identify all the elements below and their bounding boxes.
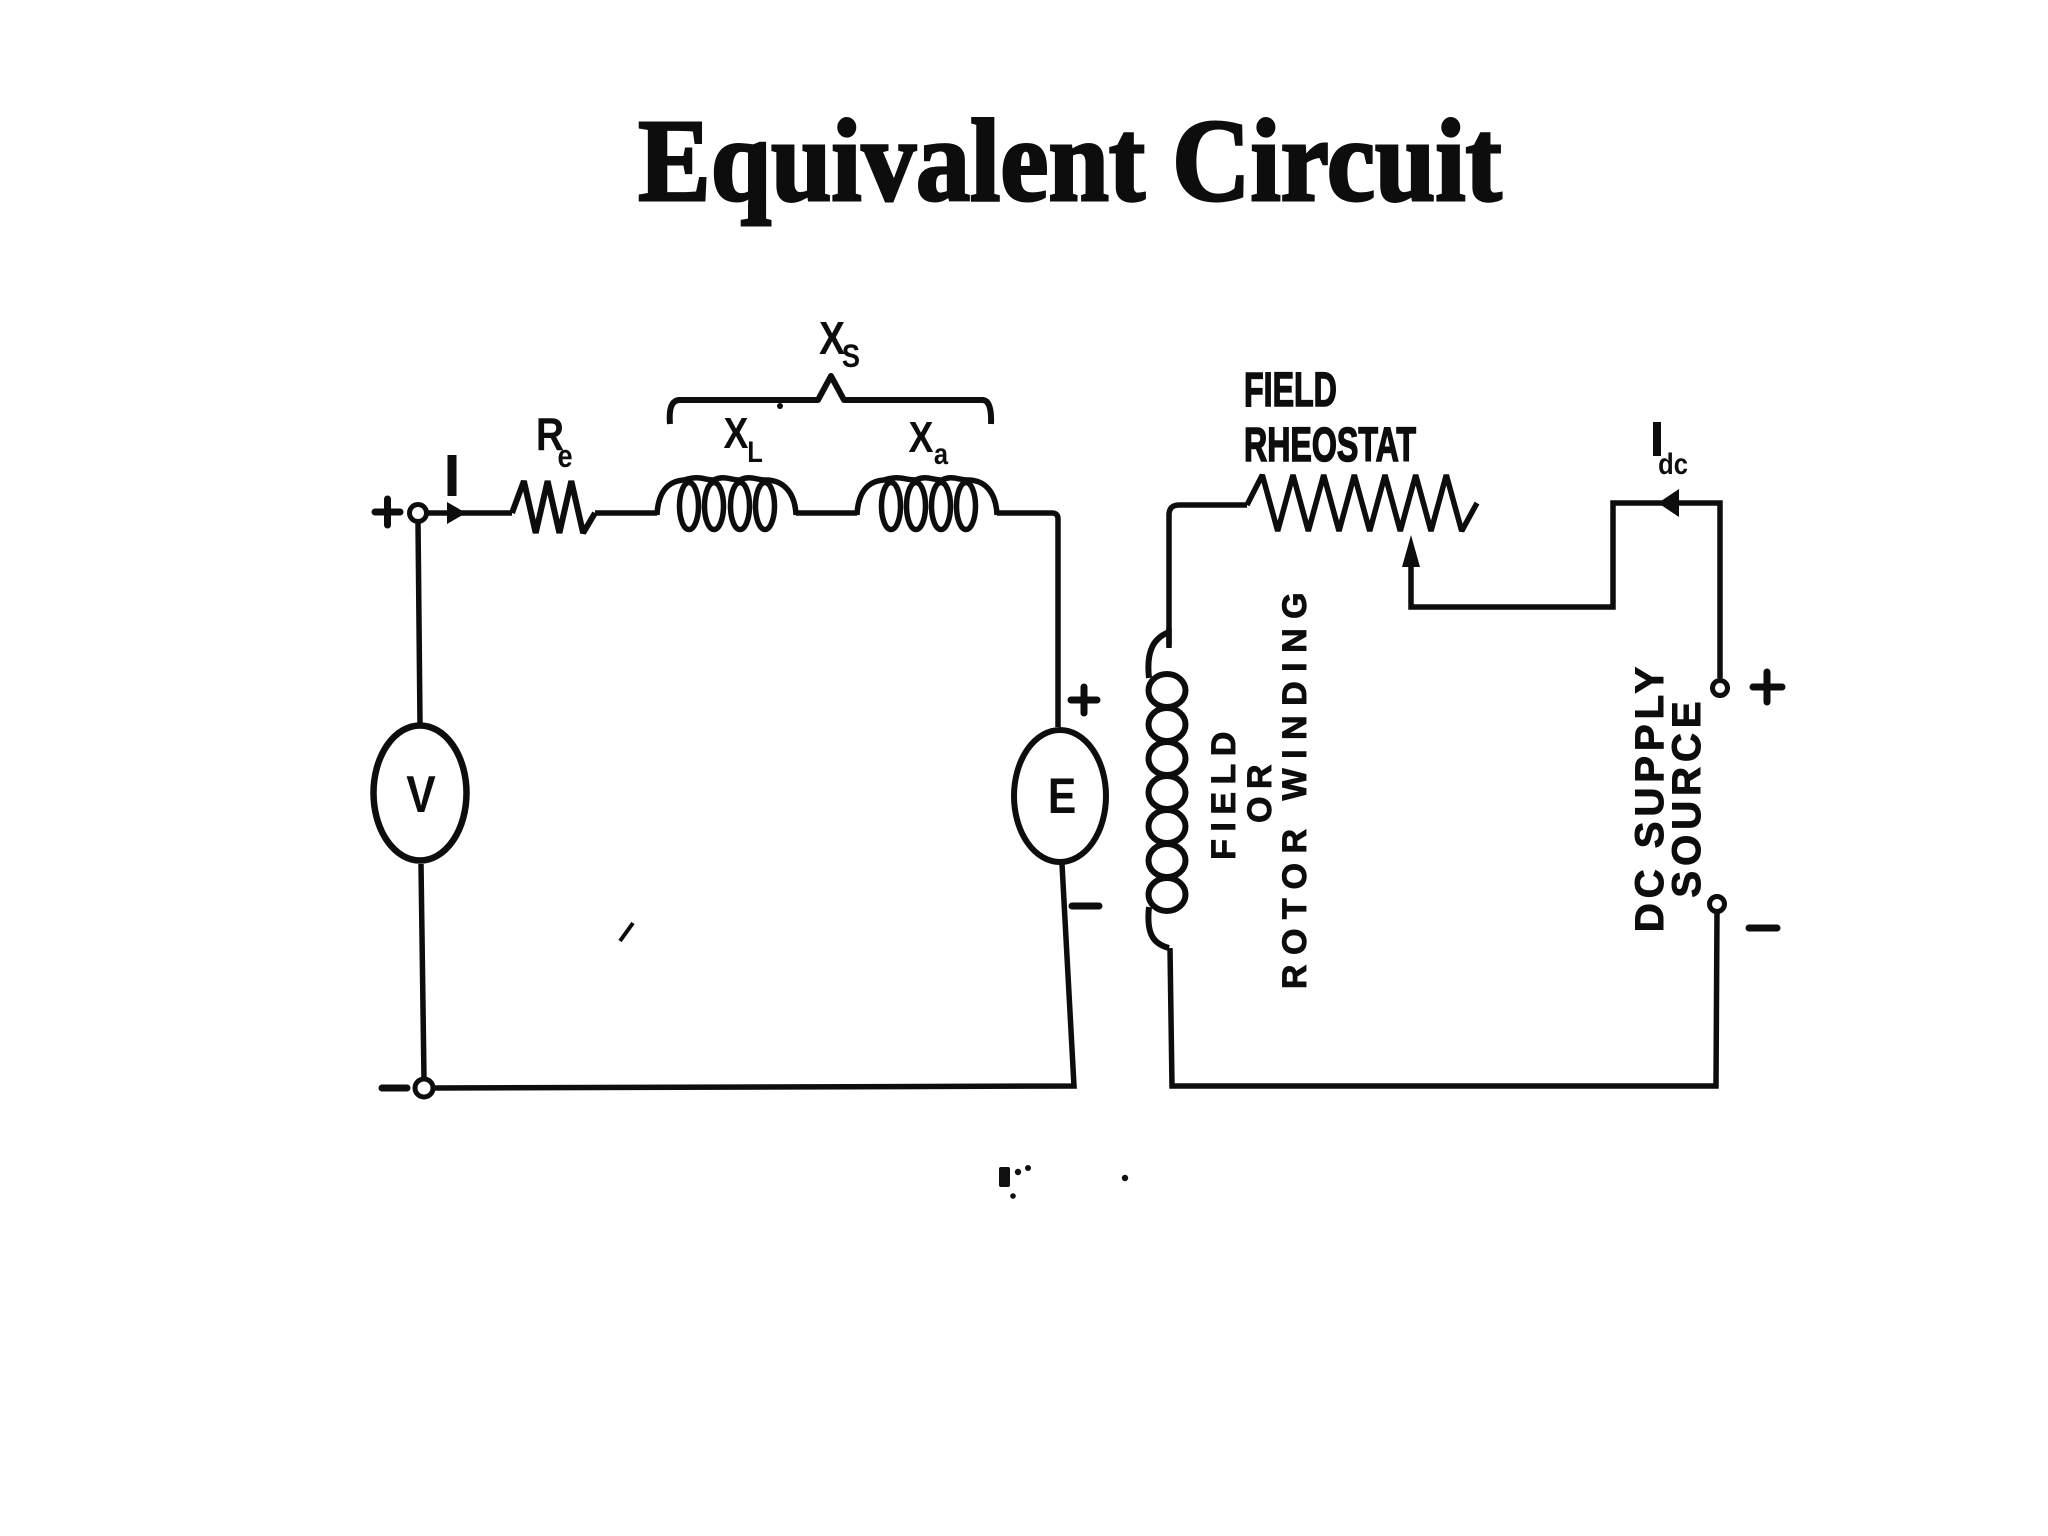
svg-text:SOURCE: SOURCE bbox=[1665, 696, 1709, 897]
wire Re to XL bbox=[595, 510, 657, 516]
svg-text:a: a bbox=[934, 437, 949, 470]
wire T1 down to V bbox=[418, 521, 420, 723]
node + (top-left polarity mark) bbox=[375, 499, 400, 525]
current arrow Idc (points left) bbox=[1658, 489, 1679, 517]
svg-text:OR: OR bbox=[1241, 757, 1279, 823]
node - (bottom-left polarity mark) bbox=[382, 1085, 407, 1092]
terminal T4 (DC supply -) bbox=[1710, 897, 1725, 912]
rheostat wiper arrow bbox=[1402, 535, 1420, 567]
source V (voltmeter) bbox=[374, 726, 467, 861]
wire Xa to right corner and down to E bbox=[997, 513, 1058, 727]
node + (E positive) bbox=[1071, 687, 1097, 713]
label Xs bbox=[819, 313, 846, 365]
svg-text:S: S bbox=[842, 339, 860, 375]
svg-text:X: X bbox=[724, 408, 749, 458]
label FIELD RHEOSTAT bbox=[1244, 363, 1337, 417]
svg-text:Equivalent Circuit: Equivalent Circuit bbox=[638, 95, 1502, 226]
label Xa bbox=[909, 412, 934, 462]
svg-text:RHEOSTAT: RHEOSTAT bbox=[1244, 418, 1416, 472]
speck (stray slash mark) bbox=[620, 923, 633, 941]
wire: right circuit top-left riser bbox=[1169, 505, 1247, 645]
speck under brace bbox=[777, 403, 783, 409]
wire XL to Xa bbox=[796, 510, 857, 516]
svg-text:ROTOR WINDING: ROTOR WINDING bbox=[1276, 583, 1314, 989]
svg-text:e: e bbox=[557, 439, 572, 475]
wire E bottom to bottom rail bbox=[433, 864, 1074, 1088]
inductor Xa bbox=[857, 478, 997, 530]
wire T1 to Re bbox=[427, 510, 512, 516]
svg-text:V: V bbox=[406, 766, 435, 824]
field winding coil (FIELD OR ROTOR WINDING) bbox=[1148, 632, 1185, 948]
svg-text:X: X bbox=[909, 412, 934, 462]
label Idc bbox=[1653, 422, 1661, 456]
terminal T1 (top-left) bbox=[410, 505, 427, 522]
brace Xs over XL and Xa bbox=[670, 376, 991, 424]
title: Equivalent Circuit bbox=[638, 95, 1502, 226]
label I (current) bbox=[448, 455, 457, 496]
svg-text:dc: dc bbox=[1658, 447, 1688, 480]
terminal T2 (bottom-left) bbox=[415, 1079, 433, 1097]
wire coil top riser bbox=[1166, 628, 1172, 648]
specks bottom center bbox=[999, 1165, 1128, 1199]
node - (DC supply negative) bbox=[1749, 925, 1777, 932]
label XL bbox=[724, 408, 749, 458]
field rheostat bbox=[1247, 475, 1477, 531]
svg-text:FIELD: FIELD bbox=[1205, 724, 1243, 860]
svg-text:E: E bbox=[1048, 768, 1076, 824]
terminal T3 (DC supply +) bbox=[1713, 681, 1728, 696]
node + (DC supply positive) bbox=[1753, 672, 1782, 702]
svg-text:FIELD: FIELD bbox=[1244, 363, 1337, 417]
source E bbox=[1014, 730, 1106, 862]
wire T4 down, bottom rail, left riser bbox=[1170, 912, 1717, 1086]
svg-text:L: L bbox=[747, 435, 763, 468]
resistor Re bbox=[512, 481, 595, 533]
node - (E negative) bbox=[1072, 903, 1099, 910]
label Re bbox=[536, 409, 564, 461]
inductor XL bbox=[657, 478, 796, 530]
wire V down to T2 bbox=[421, 864, 424, 1079]
current arrow bbox=[447, 502, 466, 524]
